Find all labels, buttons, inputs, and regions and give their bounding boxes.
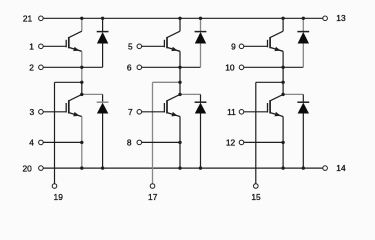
svg-text:6: 6 <box>127 62 132 72</box>
svg-text:14: 14 <box>336 163 346 173</box>
svg-text:15: 15 <box>251 192 261 202</box>
svg-text:7: 7 <box>128 107 133 117</box>
svg-text:21: 21 <box>23 13 33 23</box>
svg-text:19: 19 <box>54 192 64 202</box>
svg-text:11: 11 <box>227 107 236 117</box>
svg-text:4: 4 <box>29 138 34 148</box>
svg-text:12: 12 <box>226 138 236 148</box>
svg-text:2: 2 <box>29 62 34 72</box>
svg-text:10: 10 <box>225 62 235 72</box>
svg-text:1: 1 <box>29 41 34 51</box>
svg-text:17: 17 <box>148 192 158 202</box>
svg-text:20: 20 <box>22 163 32 173</box>
svg-text:8: 8 <box>127 138 132 148</box>
svg-text:3: 3 <box>30 107 35 117</box>
svg-text:9: 9 <box>231 41 236 51</box>
svg-text:5: 5 <box>128 41 133 51</box>
svg-text:13: 13 <box>336 13 346 23</box>
